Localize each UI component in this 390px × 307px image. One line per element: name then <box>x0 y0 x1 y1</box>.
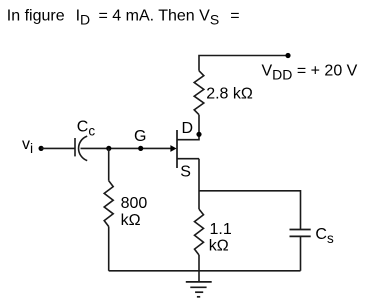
label: vi input <box>22 136 33 156</box>
svg-text:vi: vi <box>22 136 33 156</box>
svg-text:Cc: Cc <box>77 118 96 138</box>
svg-text:VDD = + 20 V: VDD = + 20 V <box>262 63 358 83</box>
node: drain junction dot <box>196 132 201 137</box>
title text: In figure ID = 4 mA. Then VS = <box>7 8 240 28</box>
transistor Q1 channel bar <box>176 130 178 168</box>
svg-text:Cs: Cs <box>315 226 334 246</box>
svg-text:800: 800 <box>121 195 148 212</box>
label: S (source) <box>180 164 191 181</box>
wire: bypass branch from source node to Cs <box>199 191 301 230</box>
transistor Q1 gate arrow <box>170 145 176 152</box>
label: 800 kOhm (two lines) <box>121 195 148 229</box>
label: VDD = + 20 V <box>262 63 358 83</box>
label: G (gate) <box>134 128 146 145</box>
capacitor Cc coupling capacitor (flat plate + curved plate) <box>75 136 87 161</box>
resistor RD 2.8 kOhm zigzag <box>194 71 204 115</box>
label: Cc <box>77 118 96 138</box>
resistor RS 1.1 kOhm zigzag <box>195 209 204 255</box>
transistor Q1 source lead <box>177 158 199 160</box>
wire: 800k top lead down from junction <box>108 148 110 180</box>
wire: input to coupling capacitor <box>41 147 75 149</box>
svg-text:kΩ: kΩ <box>121 212 141 229</box>
svg-text:G: G <box>134 128 146 145</box>
wire: capacitor to gate <box>81 147 172 149</box>
node: vi input terminal dot <box>39 146 44 151</box>
node: junction dot at 800k top <box>106 146 111 151</box>
svg-text:1.1: 1.1 <box>210 221 232 238</box>
resistor RG 800 kOhm zigzag <box>104 181 113 227</box>
wire: 800k bottom lead to rail <box>108 227 110 271</box>
svg-text:In figure: In figure <box>7 8 65 25</box>
svg-text:D: D <box>182 120 194 137</box>
node: gate dot <box>138 146 143 151</box>
wire: 1.1k bottom lead through rail to ground <box>198 255 200 282</box>
svg-text:ID: ID <box>76 8 91 28</box>
svg-text:S: S <box>180 164 191 181</box>
svg-text:kΩ: kΩ <box>209 238 229 255</box>
ground symbol <box>186 282 212 297</box>
wire: VDD top rail from resistor top corner to supply terminal <box>199 56 288 71</box>
wire: bottom rail <box>109 270 301 272</box>
label: 1.1 kOhm (two lines) <box>209 221 232 255</box>
wire: drain lead from resistor bottom down then left to channel <box>177 115 199 140</box>
svg-text:2.8 kΩ: 2.8 kΩ <box>206 86 253 103</box>
label: D (drain) <box>182 120 194 137</box>
wire: source down to 1.1k resistor <box>198 159 200 209</box>
wire: Cs bottom lead to rail <box>300 236 302 270</box>
node: VDD supply terminal dot <box>285 53 290 58</box>
label: 2.8 kOhm <box>206 86 253 103</box>
svg-text:= 4 mA. Then VS: = 4 mA. Then VS <box>99 8 220 28</box>
capacitor Cs bypass capacitor plates <box>290 230 311 237</box>
label: Cs <box>315 226 334 246</box>
svg-text:=: = <box>230 8 239 25</box>
